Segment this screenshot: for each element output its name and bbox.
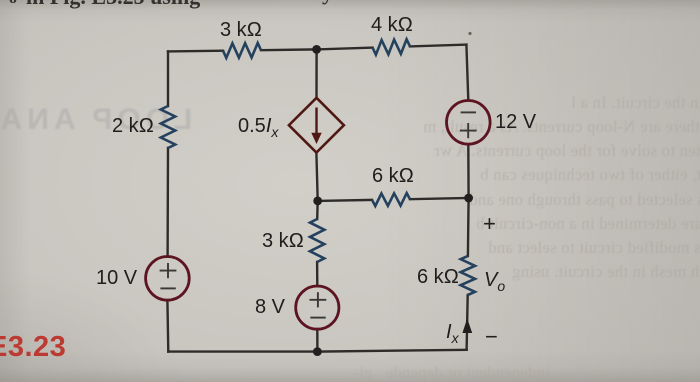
- resistor R 4k top: [373, 39, 411, 54]
- bleed line 4: [480, 165, 700, 185]
- label 10 V: [96, 267, 137, 290]
- wire: diamond to middle node: [316, 153, 317, 201]
- bleed line 6: [476, 214, 700, 234]
- wire: 8V to bottom node: [316, 329, 319, 352]
- wire: 6k vertical to bottom-right corner: [467, 295, 468, 350]
- wire: 2k to 10V source: [166, 148, 169, 257]
- bleed line 3: [434, 141, 700, 161]
- wire: bottom right half: [317, 350, 466, 352]
- 8V plus sign: [310, 292, 327, 307]
- label Vo: [484, 269, 505, 294]
- resistor R 2k left: [161, 106, 175, 148]
- label 4 kOhm top: [371, 14, 413, 37]
- label minus Vo: [485, 324, 498, 350]
- label E3.23 red: [0, 331, 66, 364]
- wire: 3k to top node: [261, 48, 317, 51]
- bleed-through heading (mirrored): [0, 103, 192, 137]
- top cropped caption text: [26, 0, 200, 10]
- current Ix arrowhead: [462, 319, 472, 334]
- label 6 kOhm middle: [372, 165, 414, 188]
- bleed line bottom: [353, 363, 550, 382]
- node dot top (3k/4k junction): [312, 45, 321, 54]
- wire: top-right corner down to 12V: [466, 45, 468, 100]
- node dot right (12V/6k junction): [464, 194, 473, 203]
- node dot middle (diamond/3k/6k junction): [313, 197, 322, 206]
- dependent source diamond 0.5Ix: [289, 98, 344, 153]
- bleed line 1: [571, 93, 700, 113]
- bleed line 8: [512, 262, 700, 282]
- label 12 V: [495, 111, 536, 134]
- wire: 10V to bottom-left corner: [166, 300, 169, 352]
- resistor R 3k top: [223, 43, 261, 58]
- wire: 4k to top-right corner: [410, 45, 466, 47]
- wire: 12V to right node: [467, 145, 470, 198]
- top cropped caption y descender: [322, 0, 333, 6]
- wire: top-left to 3k resistor: [168, 50, 223, 53]
- node dot bottom: [313, 347, 322, 356]
- label 6 kOhm right: [417, 266, 459, 289]
- wire: bottom left half: [168, 350, 317, 352]
- voltage source V 12V circle: [447, 101, 491, 145]
- bleed line 7: [488, 238, 700, 258]
- wire: top node down to diamond: [315, 49, 318, 98]
- resistor R 3k middle: [310, 219, 325, 262]
- top cropped caption subscript o: [9, 0, 17, 8]
- bleed line 5: [469, 190, 700, 210]
- label 2 kOhm left: [112, 115, 154, 138]
- label 0.5Ix: [238, 115, 278, 140]
- label plus Vo: [483, 211, 496, 237]
- label 3 kOhm middle: [262, 230, 304, 253]
- 10V plus sign: [160, 263, 177, 278]
- wire: 6k horizontal to right node: [410, 198, 469, 199]
- label Ix: [446, 321, 459, 346]
- 12V plus sign: [460, 123, 477, 138]
- wire: right node to 6k vertical: [467, 198, 470, 256]
- wire: top node to 4k: [317, 48, 373, 50]
- resistor R 6k middle horizontal: [372, 193, 410, 206]
- wire: middle node to 6k horizontal: [318, 200, 372, 201]
- dependent source arrow: [311, 108, 321, 145]
- voltage source V 10V circle: [146, 257, 190, 301]
- resistor R 6k right: [461, 256, 475, 295]
- wire: 3k mid to 8V source: [316, 262, 319, 286]
- label 3 kOhm top: [220, 19, 262, 42]
- 10V minus sign: [160, 287, 175, 289]
- bleed line 2: [423, 117, 700, 137]
- 12V minus sign: [461, 111, 476, 113]
- speck: [468, 32, 471, 35]
- wire: middle node to 3k mid: [316, 201, 319, 219]
- 8V minus sign: [310, 317, 325, 319]
- wire: left branch top (down to 2k): [167, 51, 169, 106]
- voltage source V 8V circle: [296, 286, 339, 329]
- label 8 V: [255, 296, 285, 319]
